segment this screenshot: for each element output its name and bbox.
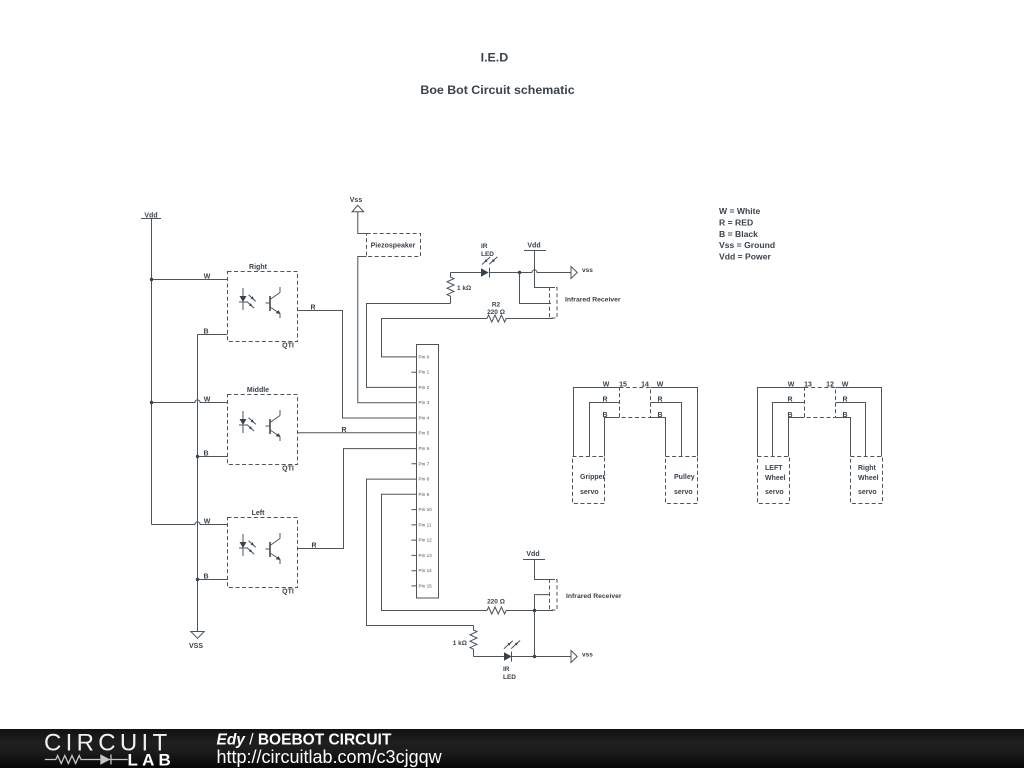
wire Vdd to IR receiver top pin (bottom) [535, 560, 556, 580]
svg-text:Pin 0: Pin 0 [419, 354, 430, 359]
svg-text:Pin 5: Pin 5 [419, 431, 430, 436]
svg-text:Pin 10: Pin 10 [419, 507, 433, 512]
wire 1k top to Pin 2 [367, 304, 451, 388]
svg-text:R: R [341, 427, 346, 434]
svg-text:Right: Right [858, 465, 877, 472]
piezospeaker box [367, 234, 421, 257]
svg-text:Pin 1: Pin 1 [419, 370, 430, 375]
pulley servo box [666, 457, 698, 504]
svg-text:Pin 8: Pin 8 [419, 477, 430, 482]
svg-text:12: 12 [826, 381, 834, 388]
svg-text:servo: servo [674, 489, 693, 496]
svg-text:W: W [204, 397, 211, 404]
svg-text:vss: vss [582, 651, 593, 658]
svg-text:LED: LED [503, 674, 516, 681]
wire W to Middle QTI (hop over B bus) [152, 400, 228, 403]
resistor R2 220 ohm (horizontal) [487, 315, 553, 322]
IC U1 (BASIC Stamp) box [417, 345, 439, 599]
node LED/receiver junction top [518, 271, 521, 274]
QTI sensor Middle [228, 395, 298, 465]
svg-text:Wheel: Wheel [858, 475, 879, 482]
svg-text:Left: Left [252, 510, 266, 517]
svg-text:http://circuitlab.com/c3cjgqw: http://circuitlab.com/c3cjgqw [217, 747, 443, 767]
QTI sensor Left [228, 518, 298, 588]
svg-text:VSS: VSS [189, 643, 203, 650]
svg-text:B: B [203, 329, 208, 336]
wire LED junction to IR receiver middle pin (bottom) [535, 595, 551, 657]
Vdd net tick [141, 218, 161, 220]
wire B Middle QTI [198, 456, 228, 458]
svg-text:Pin 15: Pin 15 [419, 583, 433, 588]
svg-text:220 Ω: 220 Ω [487, 309, 505, 316]
resistor 1 kOhm (vertical, top) [447, 273, 454, 304]
svg-text:Gripper: Gripper [580, 474, 606, 481]
svg-text:LAB: LAB [128, 751, 176, 768]
svg-text:vss: vss [582, 267, 593, 274]
wire LED row top [451, 270, 572, 273]
svg-text:Boe Bot Circuit schematic: Boe Bot Circuit schematic [420, 83, 574, 97]
svg-text:R: R [602, 397, 607, 404]
Vss arrow symbol [352, 205, 364, 212]
net flag vss (top) [571, 267, 577, 279]
wire Pin 0 to R2 [382, 319, 488, 357]
svg-text:1 kΩ: 1 kΩ [457, 285, 471, 292]
svg-text:1 kΩ: 1 kΩ [453, 640, 467, 647]
svg-text:R = RED: R = RED [719, 217, 753, 227]
svg-text:QTI: QTI [282, 589, 294, 596]
svg-text:Pin 14: Pin 14 [419, 568, 433, 573]
node B-middle junction [196, 455, 199, 458]
footer bar [0, 729, 1024, 768]
svg-text:Edy / BOEBOT CIRCUIT: Edy / BOEBOT CIRCUIT [217, 732, 392, 749]
svg-text:Pin 4: Pin 4 [419, 416, 430, 421]
wire W gripper [574, 388, 620, 457]
svg-text:R: R [657, 397, 662, 404]
node Vdd/W-middle junction [150, 401, 153, 404]
svg-text:Pin 6: Pin 6 [419, 446, 430, 451]
wire B right wheel [836, 418, 851, 457]
svg-text:Pin 9: Pin 9 [419, 492, 430, 497]
svg-text:13: 13 [804, 381, 812, 388]
svg-text:Right: Right [249, 264, 268, 271]
svg-text:Pin 11: Pin 11 [419, 522, 432, 527]
wire B bus vertical [197, 335, 199, 632]
gripper servo box [573, 457, 605, 504]
svg-text:Vss = Ground: Vss = Ground [719, 240, 775, 250]
svg-text:Pin 13: Pin 13 [419, 553, 433, 558]
svg-text:R: R [787, 397, 792, 404]
wire R right wheel [836, 403, 866, 457]
pin stubs [412, 372, 417, 586]
svg-text:B = Black: B = Black [719, 229, 758, 239]
wire Pin 9 to 220 ohm (bottom) [382, 494, 488, 610]
svg-text:Vdd: Vdd [527, 243, 540, 250]
node LED junction bottom [533, 655, 536, 658]
svg-text:IR: IR [503, 666, 510, 673]
wire W to Right QTI [152, 279, 228, 281]
svg-text:QTI: QTI [282, 343, 294, 350]
wire W to Left QTI (hop over B bus) [152, 522, 228, 525]
wire W right wheel [836, 388, 882, 457]
svg-text:B: B [203, 451, 208, 458]
svg-text:R: R [310, 305, 315, 312]
infrared receiver box (top) [550, 288, 558, 319]
LED emitted light arrows (bottom) [504, 641, 520, 649]
svg-text:R2: R2 [492, 302, 501, 309]
wire junction to IR receiver middle pin [520, 273, 552, 304]
svg-text:Vss: Vss [350, 197, 363, 204]
wire R pulley [651, 403, 682, 457]
svg-text:W: W [204, 274, 211, 281]
LED incoming light arrows [482, 257, 498, 265]
wire B Left QTI [198, 579, 228, 581]
svg-text:Vdd = Power: Vdd = Power [719, 252, 771, 262]
svg-text:Vdd: Vdd [526, 551, 539, 558]
resistor 220 ohm (bottom) [487, 607, 553, 614]
wire B gripper [605, 418, 620, 457]
svg-text:R: R [842, 397, 847, 404]
svg-text:Pin 2: Pin 2 [419, 385, 430, 390]
wire Vdd rail vertical [151, 219, 153, 525]
wire R middle QTI to Pin 5 [298, 432, 417, 434]
svg-text:B: B [787, 412, 792, 419]
svg-text:B: B [602, 412, 607, 419]
svg-text:Pin 3: Pin 3 [419, 400, 430, 405]
right wheel servo box [851, 457, 883, 504]
wire Pin 8 to 1k (bottom) [367, 479, 474, 625]
ground VSS symbol [191, 632, 204, 639]
svg-text:W: W [204, 519, 211, 526]
IR LED D1 (top) [481, 268, 489, 277]
servo header 13/12 box [805, 388, 836, 418]
wire W pulley [651, 388, 698, 457]
node Vdd/W-right junction [150, 278, 153, 281]
svg-text:Infrared Receiver: Infrared Receiver [565, 297, 621, 304]
wire R right QTI to Pin 4 [298, 311, 417, 419]
node B-left junction [196, 578, 199, 581]
left wheel servo box [758, 457, 790, 504]
wire R gripper [590, 403, 620, 457]
svg-text:14: 14 [641, 381, 649, 388]
svg-text:B: B [842, 412, 847, 419]
wire R left wheel [773, 403, 805, 457]
servo header 15/14 box [620, 388, 651, 418]
wire W left wheel [758, 388, 805, 457]
svg-text:IR: IR [481, 243, 488, 250]
svg-text:Pin 7: Pin 7 [419, 461, 430, 466]
svg-text:W = White: W = White [719, 206, 761, 216]
wire LED row bottom [474, 656, 572, 658]
wire Vss to piezospeaker [358, 212, 367, 234]
QTI sensor Right [228, 272, 298, 342]
svg-text:servo: servo [765, 489, 784, 496]
wire R left QTI to Pin 6 [298, 449, 417, 549]
svg-text:I.E.D: I.E.D [481, 51, 509, 65]
wire B left wheel [789, 418, 805, 457]
svg-text:W: W [842, 381, 849, 388]
infrared receiver box (bottom) [550, 580, 558, 611]
resistor 1 kOhm (vertical, bottom) [470, 626, 477, 657]
logo resistor-diode glyph [45, 756, 101, 764]
svg-text:R: R [311, 543, 316, 550]
wire B pulley [651, 418, 666, 457]
net flag vss (bottom) [571, 651, 577, 663]
svg-text:Pulley: Pulley [674, 474, 695, 481]
svg-text:LED: LED [481, 251, 494, 258]
svg-text:servo: servo [858, 489, 877, 496]
svg-text:W: W [788, 381, 795, 388]
svg-text:Wheel: Wheel [765, 475, 786, 482]
svg-text:Piezospeaker: Piezospeaker [371, 243, 416, 250]
IR LED D2 (bottom) [504, 652, 512, 661]
svg-text:QTI: QTI [282, 466, 294, 473]
svg-text:W: W [657, 381, 664, 388]
svg-text:15: 15 [619, 381, 627, 388]
wire B Right QTI [198, 334, 228, 336]
svg-text:B: B [203, 574, 208, 581]
wire piezospeaker to Pin 3 [358, 257, 417, 403]
svg-text:Infrared Receiver: Infrared Receiver [566, 593, 622, 600]
node 220/vertical junction [533, 609, 536, 612]
svg-text:B: B [657, 412, 662, 419]
wire Vdd to IR receiver top pin [535, 251, 556, 288]
svg-text:Pin 12: Pin 12 [419, 538, 433, 543]
svg-text:servo: servo [580, 489, 599, 496]
svg-text:Middle: Middle [247, 387, 269, 394]
svg-text:LEFT: LEFT [765, 465, 783, 472]
svg-text:W: W [603, 381, 610, 388]
svg-text:220 Ω: 220 Ω [487, 599, 505, 606]
